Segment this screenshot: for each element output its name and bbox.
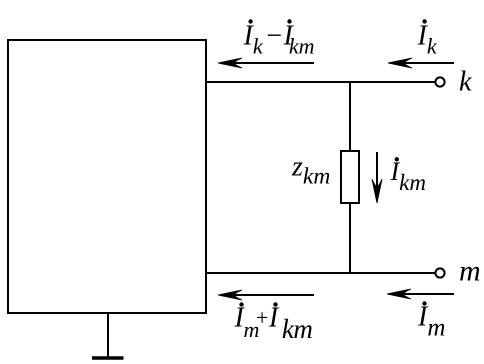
- wire (vertical branch upper): [349, 82, 351, 151]
- dot of phasor I_k label (top right): [422, 19, 426, 23]
- svg-text:Ik−Ikm: Ik−Ikm: [243, 21, 315, 59]
- dot of phasor I_km in bottom-left label (second I): [273, 302, 277, 306]
- node m terminal circle: [435, 268, 444, 277]
- ground wire: [107, 313, 109, 357]
- wire k (top horizontal): [206, 81, 436, 83]
- dot of phasor I_m label (bottom right): [422, 301, 426, 305]
- svg-text:Ik: Ik: [417, 21, 438, 59]
- svg-text:zkm: zkm: [291, 152, 330, 190]
- current arrow I_k (top right): [388, 58, 454, 68]
- wire m (bottom horizontal): [206, 272, 436, 274]
- current arrow I_m (bottom right): [387, 289, 454, 299]
- current arrow I_k - I_km (top left): [218, 58, 314, 68]
- node k terminal circle: [435, 77, 444, 86]
- dot of phasor I_km label (middle): [395, 157, 399, 161]
- impedance z_km: [341, 151, 359, 203]
- ground: [92, 356, 124, 360]
- svg-text:k: k: [459, 67, 472, 98]
- two-port network box: [8, 40, 206, 313]
- current arrow I_m + I_km (bottom left): [218, 290, 314, 300]
- svg-text:Im+Ikm: Im+Ikm: [234, 303, 313, 345]
- svg-text:Ikm: Ikm: [390, 157, 427, 195]
- dot of phasor I_k minus label (first I): [248, 19, 252, 23]
- wire (vertical branch lower): [349, 204, 351, 273]
- svg-text:Im: Im: [417, 302, 445, 342]
- svg-text:m: m: [459, 255, 481, 288]
- current arrow I_km (down, through impedance): [372, 152, 382, 203]
- dot of phasor I_km in top-left label (second I): [287, 19, 291, 23]
- dot of phasor I_m in bottom-left label (first I): [239, 302, 243, 306]
